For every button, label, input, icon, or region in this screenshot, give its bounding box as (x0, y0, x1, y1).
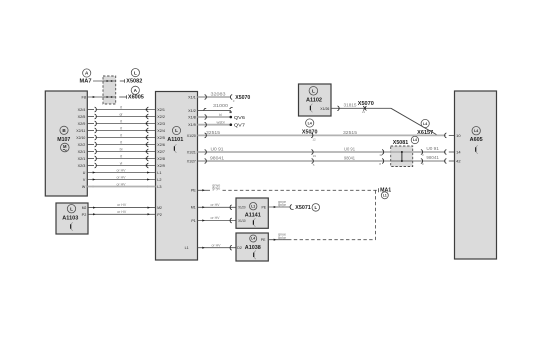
A1101 pin P1 (191, 219, 195, 223)
M107 pin X2/4 (78, 108, 86, 112)
svg-text:98041: 98041 (344, 156, 356, 161)
svg-text:X1/27: X1/27 (187, 159, 196, 163)
A1101 pin X2/5 (157, 136, 165, 140)
svg-text:X2/5: X2/5 (157, 136, 165, 140)
svg-text:X1/1: X1/1 (188, 95, 196, 99)
svg-text:X2/9: X2/9 (78, 122, 86, 126)
signal wire X2/3 to X2/9 (vi) (87, 161, 155, 168)
svg-text:L: L (315, 205, 318, 210)
svg-text:A1103: A1103 (62, 215, 78, 221)
wire 98041 from X1/27 through X5070-5 and X5081 to A605 pin 42 (198, 155, 455, 167)
svg-text:X5071: X5071 (295, 205, 311, 211)
A1103 pin M2 (82, 206, 87, 210)
A1101 pin X2/9 (157, 164, 165, 168)
connector X5071 label (290, 204, 320, 212)
HV phase wire W-L3 (or HV) (87, 182, 155, 187)
ground wire branch down to A1038 PE (288, 190, 376, 239)
svg-text:A1141: A1141 (245, 213, 261, 219)
svg-text:X2/6: X2/6 (157, 143, 165, 147)
ground wire gnye A1141 PE to X5071 (268, 200, 290, 208)
svg-text:PE: PE (191, 189, 196, 193)
signal wire X2/11 to X2/4 (rt) (87, 126, 155, 133)
bridge link inside X5081 (401, 151, 403, 162)
A1101 pin L3 (157, 185, 161, 189)
A1101 pin X2/1 (157, 108, 165, 112)
svg-text:21: 21 (362, 110, 366, 114)
HV phase wire V-L2 (or HV) (87, 175, 155, 180)
svg-text:or HV: or HV (117, 210, 127, 214)
control unit A605 (455, 91, 497, 259)
M107 pin V (83, 178, 86, 182)
svg-text:F8: F8 (82, 96, 87, 100)
svg-text:X2/3: X2/3 (78, 164, 86, 168)
svg-text:X2/2: X2/2 (157, 115, 165, 119)
wire 31000 terminated stub (198, 103, 233, 113)
svg-text:X2/9: X2/9 (157, 164, 165, 168)
svg-text:gnye: gnye (278, 236, 286, 240)
HV wire L1 to A1038 D2 (or HV) (198, 243, 237, 250)
svg-text:U0 91: U0 91 (211, 146, 225, 151)
connector X5081 dashed housing (L4) (391, 136, 419, 166)
svg-text:31815: 31815 (344, 103, 358, 108)
signal wire X2/4 to X2/1 (rt) (87, 105, 155, 112)
wire bl to splice QV6 (198, 113, 246, 120)
svg-text:12: 12 (312, 137, 316, 141)
ground wire gnye from A1038 PE (268, 233, 288, 241)
svg-text:X2/8: X2/8 (157, 157, 165, 161)
M107 pin X2/3 (78, 164, 86, 168)
control unit A1102 (299, 84, 332, 116)
svg-text:L: L (312, 88, 315, 93)
svg-text:X2/1: X2/1 (157, 108, 165, 112)
connector X6005 label (119, 86, 144, 100)
svg-text:P1: P1 (191, 219, 195, 223)
A1141 pin PE (262, 206, 267, 210)
svg-text:QV6: QV6 (234, 115, 246, 120)
svg-text:P2: P2 (157, 213, 162, 217)
svg-text:or HV: or HV (117, 175, 127, 179)
svg-text:or HV: or HV (212, 243, 222, 247)
ground wire gnye from A1101 PE to MA1 (198, 183, 379, 192)
svg-text:A1038: A1038 (245, 245, 261, 251)
svg-text:X2/2: X2/2 (78, 143, 86, 147)
svg-text:P2: P2 (82, 213, 87, 217)
heater element A1141 (236, 198, 268, 228)
svg-text:98041: 98041 (210, 156, 225, 161)
wire 32083 to X5070 (198, 92, 251, 103)
A1103 pin P2 (82, 213, 87, 217)
svg-text:X1/9: X1/9 (188, 123, 196, 127)
A1101 pin X2/2 (157, 115, 165, 119)
ground point MA1 (380, 188, 391, 199)
svg-text:A1101: A1101 (167, 137, 183, 143)
A605 pin 10 (456, 134, 461, 138)
svg-text:L1: L1 (157, 171, 161, 175)
svg-text:rt: rt (120, 154, 122, 158)
signal wire X2/10 to X2/5 (rt) (87, 133, 155, 140)
A1101 pin X1/20 (187, 134, 196, 138)
signal wire X2/9 to X2/3 (rt) (87, 119, 155, 126)
svg-text:L1: L1 (383, 193, 387, 197)
A1141 pin X1/10 (238, 219, 245, 223)
svg-text:11: 11 (379, 153, 382, 157)
connector block X5082/X6005 dashed housing (103, 76, 116, 104)
svg-text:U: U (83, 171, 86, 175)
connector X5070 (L4) (302, 119, 318, 135)
A1101 pin X2/4 (157, 129, 165, 133)
M107 pin U (83, 171, 86, 175)
A1101 pin PE (191, 189, 196, 193)
svg-text:rt: rt (120, 133, 122, 137)
svg-text:rt: rt (120, 140, 122, 144)
svg-text:X1/10: X1/10 (238, 219, 245, 223)
svg-text:M2: M2 (157, 206, 162, 210)
HV phase wire U-L1 (or HV) (87, 168, 155, 173)
A1101 pin P2 (157, 213, 162, 217)
svg-text:gnye: gnye (212, 187, 220, 191)
svg-text:PE: PE (261, 238, 266, 242)
svg-text:X2/3: X2/3 (157, 122, 165, 126)
svg-text:U0 91: U0 91 (344, 146, 356, 151)
svg-text:X2/5: X2/5 (78, 115, 86, 119)
svg-text:42: 42 (456, 160, 461, 164)
svg-text:M2: M2 (82, 206, 87, 210)
blower motor M107 (45, 91, 87, 196)
wire F8 to X6005 (87, 96, 115, 98)
A1101 pin X1/9 (188, 123, 196, 127)
A1101 pin X1/1 (188, 95, 196, 99)
svg-text:X6005: X6005 (128, 95, 144, 101)
M107 pin F8 (82, 96, 87, 100)
A1102 pin X1/26 (320, 107, 329, 111)
svg-text:or HV: or HV (117, 168, 127, 172)
svg-text:L1: L1 (185, 246, 189, 250)
svg-text:L4: L4 (308, 121, 312, 125)
svg-text:X1/20: X1/20 (187, 134, 196, 138)
HV wire M1 to A1141 X1/20 (or HV) (198, 203, 237, 210)
svg-text:32515: 32515 (206, 130, 221, 135)
svg-text:rt: rt (120, 119, 122, 123)
svg-text:X1/8: X1/8 (188, 115, 196, 119)
svg-text:L2: L2 (157, 178, 161, 182)
svg-text:X2/4: X2/4 (78, 108, 86, 112)
svg-text:PE: PE (262, 206, 267, 210)
svg-text:X1/2: X1/2 (188, 109, 196, 113)
svg-text:X2/11: X2/11 (76, 129, 85, 133)
svg-text:or HV: or HV (117, 182, 127, 186)
svg-text:32515: 32515 (343, 130, 358, 135)
wire 31815 from A1102 through X5070 to X6157 (331, 101, 438, 135)
svg-text:vi: vi (120, 161, 123, 165)
A1101 pin M2 (157, 206, 162, 210)
svg-text:10: 10 (456, 134, 461, 138)
svg-text:A605: A605 (470, 137, 483, 143)
M107 pin X2/5 (78, 115, 86, 119)
svg-text:bl: bl (219, 113, 222, 117)
HV wire A1103 P2 to A1101 P2 (or HV) (88, 210, 156, 216)
svg-text:X2/10: X2/10 (76, 136, 85, 140)
wire wsbl to splice QV7 (198, 120, 246, 127)
svg-text:X2/4: X2/4 (157, 129, 165, 133)
M107 pin X2/11 (76, 129, 85, 133)
A1101 pin L1 (157, 171, 161, 175)
svg-text:L4: L4 (474, 129, 478, 133)
connector X6157 (L4) (417, 119, 433, 135)
svg-text:L4: L4 (423, 122, 427, 126)
M107 pin X2/9 (78, 122, 86, 126)
HV wire P1 to A1141 X1/10 (or HV) (198, 216, 237, 223)
svg-text:W: W (82, 185, 86, 189)
ground point MA7 (80, 69, 92, 85)
svg-text:bl: bl (120, 147, 123, 151)
HV heater A1103 (56, 203, 88, 234)
M107 pin W (82, 185, 86, 189)
svg-text:D2: D2 (237, 246, 242, 250)
svg-text:X2/1: X2/1 (78, 157, 86, 161)
svg-text:X5070: X5070 (358, 101, 374, 107)
svg-text:L: L (175, 128, 178, 133)
svg-text:L: L (134, 70, 137, 75)
A1038 pin D2 (237, 246, 242, 250)
svg-text:L4: L4 (413, 138, 417, 142)
svg-text:X5082: X5082 (126, 79, 142, 85)
svg-text:L4: L4 (251, 237, 255, 241)
svg-text:X5081: X5081 (393, 140, 409, 146)
A1101 pin X1/27 (187, 159, 196, 163)
A1101 pin X1/21 (187, 150, 196, 154)
svg-text:X5070: X5070 (235, 95, 250, 101)
svg-text:gnye: gnye (278, 203, 286, 207)
A1101 pin X1/8 (188, 115, 196, 119)
A1101 pin X2/6 (157, 143, 165, 147)
wire 32515 from X1/20 through X5070-12 and X6157 to A605 pin 10 (198, 130, 455, 141)
svg-text:rt: rt (120, 105, 122, 109)
svg-text:X2/7: X2/7 (157, 150, 165, 154)
HV wire A1103 M2 to A1101 M2 (or HV) (88, 203, 156, 209)
svg-text:X1/20: X1/20 (238, 206, 245, 210)
svg-text:X1/26: X1/26 (320, 107, 329, 111)
M107 pin X2/1 (78, 150, 86, 154)
svg-text:31000: 31000 (213, 103, 229, 108)
svg-text:or HV: or HV (117, 203, 127, 207)
A1101 pin L2 (157, 178, 161, 182)
wire U0 91 from X1/21 through X5070-19 and X5081 to A605 pin 14 (198, 146, 455, 158)
wire MA7 to X5082 (93, 80, 116, 82)
power electronics A1101 (156, 92, 198, 261)
signal wire X2/1 to X2/8 (rt) (87, 154, 155, 161)
A1101 pin M1 (191, 206, 196, 210)
heater element A1038 (236, 233, 268, 261)
A605 pin 14 (456, 151, 461, 155)
A1101 pin X1/2 (188, 109, 196, 113)
A1038 pin PE (261, 238, 266, 242)
svg-text:L: L (70, 206, 73, 211)
signal wire X2/5 to X2/2 (gr) (87, 112, 155, 119)
svg-text:U0 91: U0 91 (426, 146, 439, 151)
svg-text:MA7: MA7 (80, 79, 92, 85)
signal wire X2/2 to X2/6 (rt) (87, 140, 155, 147)
A1141 pin X1/20 (238, 206, 245, 210)
svg-text:M107: M107 (57, 137, 70, 143)
svg-text:L3: L3 (157, 185, 161, 189)
svg-text:X6157: X6157 (417, 130, 433, 136)
svg-text:X1/21: X1/21 (187, 150, 196, 154)
A1101 pin X2/8 (157, 157, 165, 161)
A1101 pin L1 (185, 246, 189, 250)
svg-text:rt: rt (120, 126, 122, 130)
svg-text:or HV: or HV (211, 203, 221, 207)
svg-text:or HV: or HV (211, 216, 221, 220)
A1101 pin X2/3 (157, 122, 165, 126)
svg-text:M: M (63, 144, 67, 149)
M107 pin X2/10 (76, 136, 85, 140)
svg-text:14: 14 (456, 151, 461, 155)
svg-text:98041: 98041 (426, 155, 439, 160)
svg-text:QV7: QV7 (234, 123, 246, 128)
M107 pin X2/2 (78, 143, 86, 147)
A1101 pin X2/7 (157, 150, 165, 154)
svg-text:32083: 32083 (211, 92, 227, 97)
connector X5082 label (120, 69, 143, 85)
svg-text:M1: M1 (191, 206, 196, 210)
svg-text:X2/1: X2/1 (78, 150, 86, 154)
svg-text:19: 19 (313, 154, 317, 158)
svg-text:L1: L1 (251, 204, 255, 208)
signal wire X2/1 to X2/7 (bl) (87, 147, 155, 154)
svg-text:A1102: A1102 (306, 97, 322, 103)
M107 pin X2/1 (78, 157, 86, 161)
A605 pin 42 (456, 160, 461, 164)
svg-text:wsbl: wsbl (217, 120, 225, 124)
